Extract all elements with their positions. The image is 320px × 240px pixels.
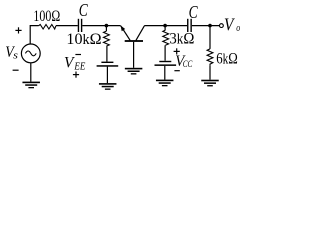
svg-text:CC: CC [183,60,193,70]
svg-text:3kΩ: 3kΩ [169,30,194,47]
svg-text:10kΩ: 10kΩ [66,31,101,48]
svg-text:o: o [236,23,240,34]
svg-text:100Ω: 100Ω [33,8,60,25]
svg-text:C: C [79,0,88,20]
svg-text:6kΩ: 6kΩ [216,50,238,67]
svg-text:C: C [189,2,199,22]
svg-text:s: s [13,51,18,62]
svg-text:EE: EE [73,61,85,72]
